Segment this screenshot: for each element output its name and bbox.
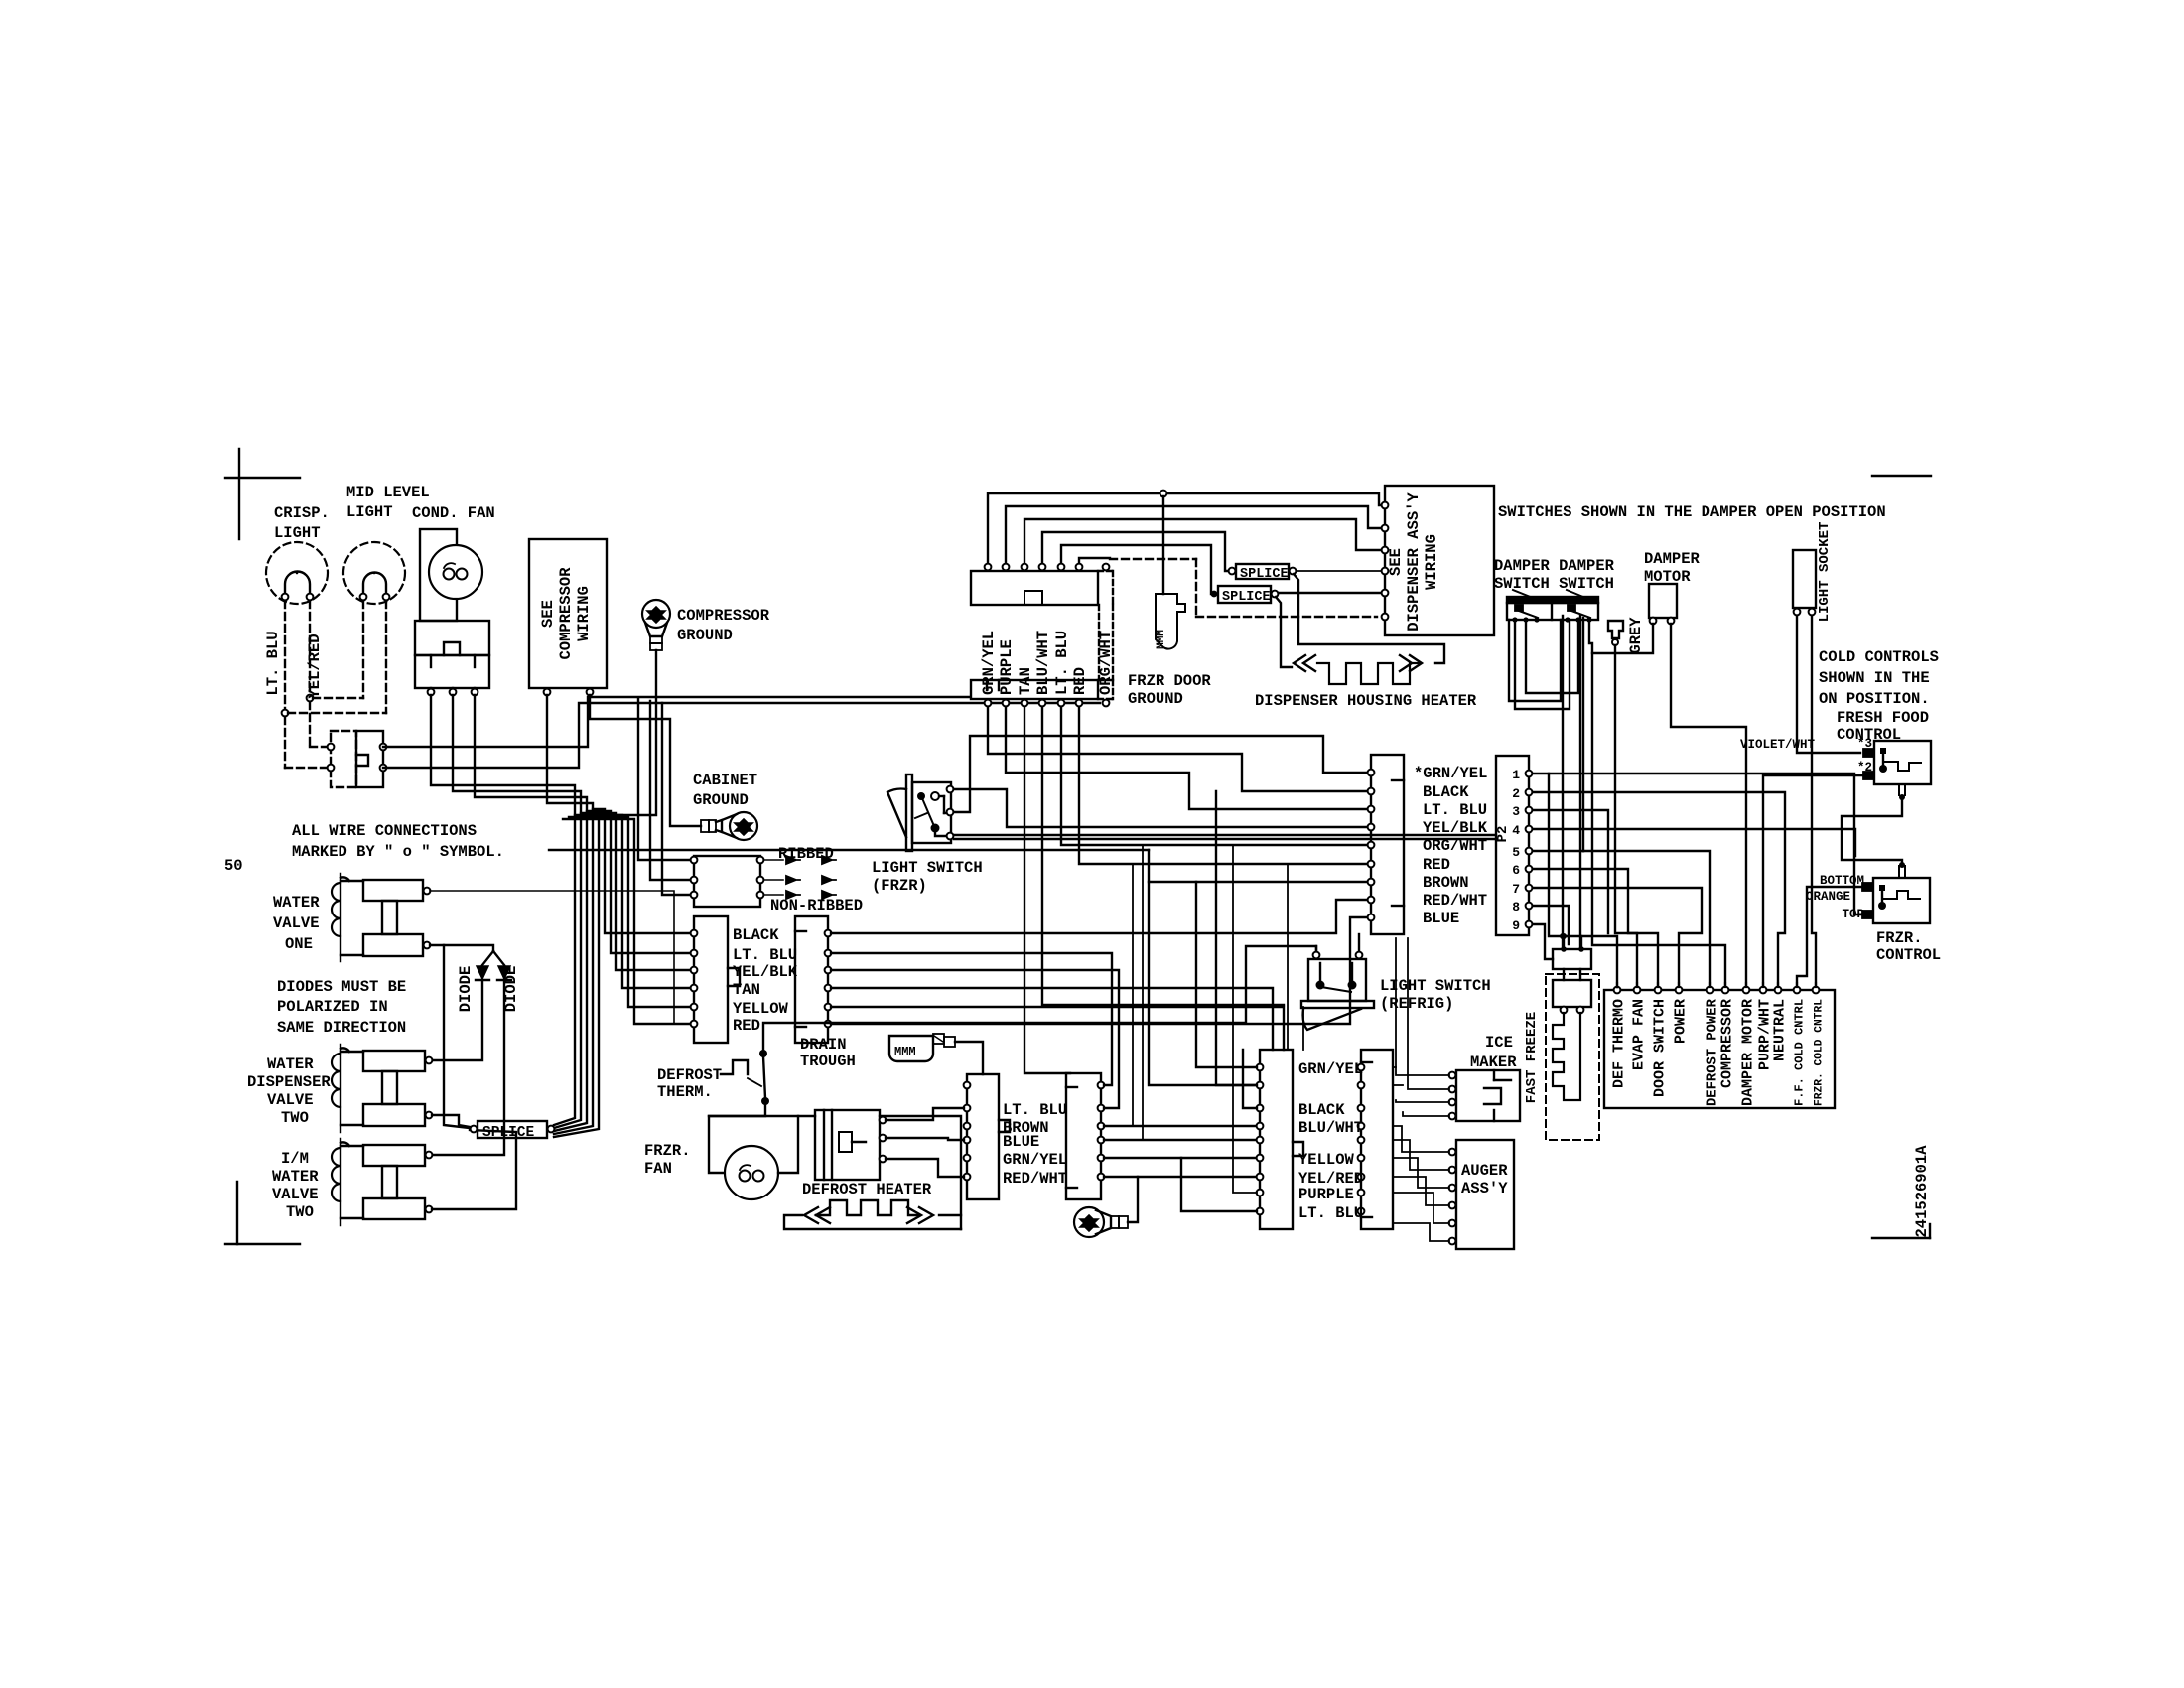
svg-text:241526901A: 241526901A bbox=[1913, 1145, 1931, 1238]
lamp socket LIGHT SOCKET bbox=[1793, 522, 1833, 623]
svg-text:BLU/WHT: BLU/WHT bbox=[1298, 1119, 1363, 1137]
wire P2 pin1 bbox=[1533, 774, 1563, 936]
wire light socket right down bbox=[1812, 616, 1816, 987]
ground FRZR DOOR GROUND bbox=[1128, 491, 1211, 708]
svg-text:COMPRESSOR: COMPRESSOR bbox=[677, 607, 770, 625]
svg-text:WATER: WATER bbox=[273, 894, 320, 912]
switch LIGHT SWITCH (FRZR) bbox=[872, 774, 983, 895]
svg-text:LIGHT: LIGHT bbox=[346, 503, 393, 521]
wire P2 pin3 bbox=[1533, 810, 1608, 933]
wire extra vertical drop b bbox=[1104, 845, 1143, 1140]
svg-text:RED/WHT: RED/WHT bbox=[1423, 892, 1487, 910]
svg-text:WIRING: WIRING bbox=[575, 586, 593, 641]
svg-text:NON-RIBBED: NON-RIBBED bbox=[770, 897, 863, 914]
svg-text:LIGHT SWITCH: LIGHT SWITCH bbox=[872, 859, 983, 877]
svg-text:YELLOW: YELLOW bbox=[1298, 1151, 1355, 1169]
svg-text:DEF THERMO: DEF THERMO bbox=[1611, 999, 1628, 1088]
svg-text:LT. BLU: LT. BLU bbox=[1423, 801, 1487, 819]
svg-text:MMM: MMM bbox=[1156, 630, 1167, 649]
svg-text:SAME DIRECTION: SAME DIRECTION bbox=[277, 1019, 406, 1037]
svg-text:RED/WHT: RED/WHT bbox=[1003, 1170, 1067, 1188]
svg-text:LIGHT SOCKET: LIGHT SOCKET bbox=[1817, 522, 1833, 623]
svg-text:DEFROST: DEFROST bbox=[657, 1066, 722, 1084]
svg-text:WATER: WATER bbox=[272, 1168, 319, 1186]
svg-text:2: 2 bbox=[1512, 786, 1520, 801]
wire top connector column 3 down bbox=[1024, 707, 1070, 1073]
wire refrig switch left terminal up bbox=[1315, 946, 1317, 951]
wire refrig switch right terminal to 9-pin box bbox=[1358, 934, 1360, 951]
svg-text:DISPENSER HOUSING HEATER: DISPENSER HOUSING HEATER bbox=[1255, 692, 1477, 710]
wire cond fan terminal 1 to splice bundle bbox=[431, 695, 575, 1125]
wire fast freeze right pin up bbox=[1580, 936, 1582, 949]
wire freezer control bottom terminal bbox=[1797, 887, 1862, 987]
svg-text:GROUND: GROUND bbox=[1128, 690, 1183, 708]
terminal block main bbox=[1604, 987, 1835, 1108]
wire heater element left loop bbox=[784, 1215, 961, 1229]
svg-text:COMPRESSOR: COMPRESSOR bbox=[1719, 999, 1736, 1088]
svg-text:GRN/YEL: GRN/YEL bbox=[1298, 1060, 1363, 1078]
wire 6-pin row2 to 5-pin right half bbox=[831, 953, 1112, 1085]
wire frzr switch middle terminal to grn/yel bbox=[954, 736, 1367, 812]
svg-text:SEE: SEE bbox=[1387, 548, 1405, 576]
svg-text:YELLOW: YELLOW bbox=[733, 1000, 789, 1018]
connector 6-pin right half bbox=[795, 916, 828, 1043]
wire splice upper feed from top connector bbox=[1042, 532, 1229, 571]
resistor FAST FREEZE bbox=[1524, 946, 1599, 1140]
ground lug CABINET GROUND bbox=[693, 772, 757, 840]
wire P2 pin9 bbox=[1533, 924, 1553, 959]
box AUGER ASS'Y bbox=[1449, 1140, 1514, 1249]
svg-text:LT. BLU: LT. BLU bbox=[1298, 1204, 1363, 1222]
wire water dispenser valve lower to splice bbox=[432, 1115, 470, 1127]
connector P2 bbox=[1495, 756, 1532, 935]
svg-text:YEL/BLK: YEL/BLK bbox=[733, 963, 798, 981]
svg-text:GROUND: GROUND bbox=[693, 791, 749, 809]
terminals 9-pin connector bbox=[1368, 770, 1375, 776]
wire def thermo feed bbox=[1563, 936, 1617, 987]
wire red/wht feed from 6-pin bbox=[831, 900, 1367, 933]
splice SPLICE upper bbox=[1229, 564, 1297, 582]
wire cond fan terminal 2 to splice bundle bbox=[453, 695, 581, 1128]
svg-text:BLACK: BLACK bbox=[1298, 1101, 1345, 1119]
wire LT. BLU dashed from crisp light bbox=[284, 601, 286, 709]
svg-text:8: 8 bbox=[1512, 900, 1520, 914]
svg-text:F.F. COLD CNTRL: F.F. COLD CNTRL bbox=[1793, 999, 1807, 1106]
wire drain trough to connector bbox=[955, 1042, 983, 1074]
svg-text:9: 9 bbox=[1512, 918, 1520, 933]
terminals 7-label connector pair bbox=[1257, 1064, 1264, 1071]
wire long run y856 bbox=[549, 849, 1149, 851]
wire blue feed from 6-pin bbox=[831, 917, 1367, 1024]
svg-text:MMM: MMM bbox=[894, 1045, 916, 1058]
registration mark bottom-right bbox=[1872, 1237, 1930, 1239]
svg-text:LIGHT: LIGHT bbox=[274, 524, 321, 542]
svg-text:3: 3 bbox=[1512, 804, 1520, 819]
svg-text:YEL/RED: YEL/RED bbox=[306, 633, 324, 698]
connector 9-pin GRN/YEL..BLUE bbox=[1371, 755, 1404, 934]
wire compressor box terminal 2 to cabinet ground bbox=[590, 695, 701, 826]
svg-text:THERM.: THERM. bbox=[657, 1083, 713, 1101]
svg-text:EVAP FAN: EVAP FAN bbox=[1631, 999, 1648, 1070]
wire extra vertical drop c bbox=[1233, 845, 1257, 1193]
switch DAMPER SWITCH pair bbox=[1494, 557, 1615, 623]
wire grey plug down bbox=[1615, 645, 1658, 987]
motor DAMPER MOTOR bbox=[1644, 550, 1701, 624]
svg-text:BLACK: BLACK bbox=[1423, 783, 1469, 801]
svg-text:MAKER: MAKER bbox=[1470, 1054, 1517, 1071]
heater DRAIN TROUGH bbox=[800, 1034, 955, 1070]
svg-text:DISPENSER ASS'Y: DISPENSER ASS'Y bbox=[1405, 492, 1423, 632]
svg-text:GROUND: GROUND bbox=[677, 627, 733, 644]
svg-text:FRZR DOOR: FRZR DOOR bbox=[1128, 672, 1211, 690]
svg-text:5: 5 bbox=[1512, 845, 1520, 860]
svg-text:BLACK: BLACK bbox=[733, 926, 779, 944]
svg-text:CABINET: CABINET bbox=[693, 772, 757, 789]
wire org/wht feed bbox=[1061, 707, 1367, 845]
wire P2 pin4 bbox=[1533, 829, 1855, 856]
connector top lower half bbox=[971, 680, 1113, 699]
wire ice maker feeds bbox=[1396, 938, 1449, 1075]
connector 6-pin left half bbox=[694, 916, 740, 1043]
node junction YEL/RED bbox=[307, 695, 314, 702]
wire org/wht feed to dashed path bbox=[1079, 558, 1110, 563]
svg-text:LT. BLU: LT. BLU bbox=[264, 631, 282, 695]
wire top connector column 4 down to long run bbox=[1042, 707, 1284, 1005]
lamp CRISP. LIGHT bbox=[266, 504, 330, 604]
wire YEL/RED dashed from crisp light bbox=[309, 601, 311, 694]
svg-text:ORANGE: ORANGE bbox=[1806, 890, 1850, 904]
wire cond fan terminal 3 to splice bundle bbox=[475, 695, 587, 1131]
ground lug COMPRESSOR GROUND bbox=[642, 600, 770, 650]
motor COND. FAN bbox=[412, 504, 495, 695]
wire diode D1 to water dispenser valve bbox=[432, 980, 482, 1060]
solenoid I/M WATER VALVE TWO bbox=[272, 1139, 432, 1225]
switch LIGHT SWITCH (REFRIG) bbox=[1301, 952, 1491, 1030]
wire brown feed bbox=[1149, 850, 1367, 882]
svg-text:SPLICE: SPLICE bbox=[1240, 567, 1289, 582]
svg-text:DRAIN: DRAIN bbox=[800, 1036, 847, 1054]
box ICE MAKER bbox=[1449, 1034, 1520, 1121]
connector 7-label right half bbox=[1361, 1050, 1393, 1229]
wire crisper switch lower to org/wht dashed column bbox=[383, 703, 1100, 768]
svg-text:ORG/WHT: ORG/WHT bbox=[1423, 837, 1487, 855]
svg-text:FRZR. COLD CNTRL: FRZR. COLD CNTRL bbox=[1814, 999, 1826, 1106]
wire red feed bbox=[1079, 707, 1367, 864]
svg-text:4: 4 bbox=[1512, 823, 1520, 838]
box SEE DISPENSER ASS'Y WIRING bbox=[1382, 486, 1494, 635]
wire diode D2 to I/M water valve bbox=[432, 980, 504, 1155]
splice SPLICE lower bbox=[1211, 586, 1279, 605]
wire dispenser feed 2 bbox=[1006, 506, 1381, 563]
svg-text:*GRN/YEL: *GRN/YEL bbox=[1414, 765, 1487, 782]
wire dashed org/wht to dispenser terminal 6 bbox=[1110, 558, 1196, 560]
terminals 6-pin connector bbox=[691, 930, 698, 937]
svg-text:TAN: TAN bbox=[733, 981, 760, 999]
diode D1 bbox=[457, 951, 493, 1012]
svg-text:DAMPER DAMPER: DAMPER DAMPER bbox=[1494, 557, 1615, 575]
wire I/M water valve lower to splice bbox=[432, 1130, 516, 1209]
wire lower splice to dispenser terminal 5 bbox=[1279, 592, 1381, 594]
svg-text:POWER: POWER bbox=[1673, 999, 1690, 1044]
wire vertical stubs above terminal block bbox=[1616, 983, 1618, 987]
wire damper motor left terminal bbox=[1592, 624, 1653, 653]
svg-text:POLARIZED IN: POLARIZED IN bbox=[277, 998, 388, 1016]
svg-text:ALL WIRE CONNECTIONS: ALL WIRE CONNECTIONS bbox=[292, 822, 477, 840]
wire dispenser feed 3 bbox=[1024, 519, 1381, 563]
svg-text:COMPRESSOR: COMPRESSOR bbox=[557, 567, 575, 660]
connector 5-pin left half bbox=[967, 1074, 1010, 1199]
wire dashed from mid level light left terminal bbox=[362, 601, 364, 698]
wire evaporator ground bbox=[1128, 1177, 1138, 1222]
svg-text:DAMPER MOTOR: DAMPER MOTOR bbox=[1740, 999, 1757, 1106]
svg-text:ASS'Y: ASS'Y bbox=[1461, 1180, 1508, 1197]
wire defrost heater to 5-pin connector row3 bbox=[886, 1159, 964, 1177]
ground lug evaporator bbox=[1074, 1207, 1128, 1237]
wire feeds C4 left rows bbox=[1196, 882, 1257, 1067]
wire dispenser feed 1 bbox=[988, 493, 1381, 563]
svg-text:GRN/YEL: GRN/YEL bbox=[980, 631, 998, 695]
wire freezer fan right side bbox=[778, 1116, 798, 1173]
svg-text:SPLICE: SPLICE bbox=[1222, 590, 1271, 605]
registration mark bottom-left bbox=[236, 1182, 238, 1244]
svg-text:DOOR SWITCH: DOOR SWITCH bbox=[1652, 999, 1669, 1097]
lamp MID LEVEL LIGHT bbox=[343, 484, 430, 604]
svg-text:DIODES MUST BE: DIODES MUST BE bbox=[277, 978, 406, 996]
svg-text:DAMPER: DAMPER bbox=[1644, 550, 1701, 568]
wire P2 pin5 bbox=[1533, 850, 1583, 852]
solenoid WATER DISPENSER VALVE TWO bbox=[247, 1045, 432, 1132]
svg-text:TROUGH: TROUGH bbox=[800, 1053, 856, 1070]
wire lt blu feed bbox=[1006, 707, 1367, 809]
svg-text:50: 50 bbox=[224, 857, 243, 875]
wire damper switch nested loops bbox=[1509, 620, 1561, 701]
connector 5-pin right half bbox=[1066, 1073, 1101, 1199]
wire heater element right end up bbox=[939, 1214, 961, 1216]
wire black feed bbox=[988, 707, 1367, 791]
svg-text:(REFRIG): (REFRIG) bbox=[1380, 995, 1453, 1013]
connector 7-label left half bbox=[1260, 1050, 1303, 1229]
svg-text:SPLICE: SPLICE bbox=[482, 1125, 535, 1141]
svg-text:TWO: TWO bbox=[286, 1203, 314, 1221]
svg-text:VALVE: VALVE bbox=[273, 914, 320, 932]
svg-text:FRESH FOOD: FRESH FOOD bbox=[1837, 709, 1929, 727]
svg-text:TWO: TWO bbox=[281, 1109, 309, 1127]
terminals top connector lower bbox=[985, 700, 992, 707]
wire extra vertical drop d bbox=[1302, 1007, 1304, 1050]
wire splice lower feed from top connector bbox=[1061, 545, 1214, 594]
svg-text:SHOWN IN THE: SHOWN IN THE bbox=[1819, 669, 1930, 687]
svg-text:7: 7 bbox=[1512, 882, 1520, 897]
svg-text:DISPENSER: DISPENSER bbox=[247, 1073, 331, 1091]
svg-text:ICE: ICE bbox=[1485, 1034, 1513, 1052]
svg-text:COND. FAN: COND. FAN bbox=[412, 504, 495, 522]
svg-text:WIRING: WIRING bbox=[1423, 534, 1440, 590]
svg-text:GRN/YEL: GRN/YEL bbox=[1003, 1151, 1067, 1169]
svg-text:PURPLE: PURPLE bbox=[1298, 1186, 1354, 1203]
wire compressor ground down to splice bundle bbox=[554, 650, 656, 1137]
dashed org/wht column bbox=[1098, 605, 1100, 680]
wire 6-pin row4 down bbox=[831, 988, 1273, 1050]
wire P2 pin1 long branch to freezer control top bbox=[1549, 774, 1864, 914]
svg-text:PURPLE: PURPLE bbox=[998, 639, 1016, 695]
box SEE COMPRESSOR WIRING bbox=[529, 539, 607, 695]
svg-text:FAST FREEZE: FAST FREEZE bbox=[1524, 1012, 1540, 1103]
wire extra vertical drop e bbox=[1287, 864, 1289, 1050]
wire P2 pin8 bbox=[1533, 906, 1569, 944]
wire freezer fan enclosure bbox=[709, 1115, 815, 1117]
wire defrost therm lower contact to freezer fan bbox=[709, 1105, 765, 1173]
wire P2 pin7 bbox=[1533, 888, 1702, 987]
wire fresh food control output to freezer control bbox=[1842, 800, 1902, 863]
thermostat FRESH FOOD CONTROL bbox=[1837, 709, 1931, 800]
svg-text:RED: RED bbox=[733, 1017, 760, 1035]
terminals 5-pin connector pair bbox=[964, 1082, 971, 1089]
svg-text:CRISP.: CRISP. bbox=[274, 504, 330, 522]
wire defrost heater to 5-pin connector row1 bbox=[886, 1108, 964, 1120]
node junction LT. BLU bbox=[282, 710, 289, 717]
wire fresh food control *2 to terminal block bbox=[1763, 775, 1863, 987]
wire 5-pin rows straight to 9-pin left connector bbox=[1104, 1125, 1257, 1127]
svg-text:FRZR.: FRZR. bbox=[1876, 929, 1923, 947]
svg-text:AUGER: AUGER bbox=[1461, 1162, 1508, 1180]
wire 6-pin row3 to 5-pin right half bbox=[831, 970, 1119, 1108]
svg-text:BLU/WHT: BLU/WHT bbox=[1034, 631, 1052, 695]
svg-text:WATER: WATER bbox=[267, 1055, 314, 1073]
wire feeds to ribbed connector bbox=[638, 699, 691, 860]
wire fast freeze left pin up bbox=[1563, 936, 1565, 949]
wire defrost power feed bbox=[1583, 851, 1710, 987]
svg-text:SWITCHES SHOWN IN THE DAMPER O: SWITCHES SHOWN IN THE DAMPER OPEN POSITI… bbox=[1498, 503, 1886, 521]
svg-text:LT. BLU: LT. BLU bbox=[733, 946, 797, 964]
wire P2 pin2 bbox=[1533, 792, 1785, 987]
motor FRZR. FAN bbox=[644, 1142, 778, 1199]
wire damper switch drops bbox=[1562, 616, 1564, 949]
svg-text:COLD CONTROLS: COLD CONTROLS bbox=[1819, 648, 1939, 666]
svg-text:6: 6 bbox=[1512, 863, 1520, 878]
wire water valve one lower to splice bbox=[444, 945, 470, 1128]
svg-text:BROWN: BROWN bbox=[1423, 874, 1469, 892]
wire crisper switch to freezer light switch run bbox=[383, 697, 970, 747]
svg-text:ON POSITION.: ON POSITION. bbox=[1819, 690, 1930, 708]
svg-text:MARKED BY " o " SYMBOL.: MARKED BY " o " SYMBOL. bbox=[292, 843, 504, 861]
thermostat DEFROST THERM. bbox=[657, 1050, 769, 1105]
switch crisper lights bbox=[328, 731, 387, 787]
svg-text:VALVE: VALVE bbox=[272, 1186, 319, 1203]
svg-text:FAN: FAN bbox=[644, 1160, 672, 1178]
svg-text:(FRZR): (FRZR) bbox=[872, 877, 927, 895]
wire P2 pin6 bbox=[1533, 869, 1637, 987]
svg-text:MID LEVEL: MID LEVEL bbox=[346, 484, 430, 501]
registration mark top-left bbox=[238, 449, 240, 539]
svg-text:DEFROST HEATER: DEFROST HEATER bbox=[802, 1181, 932, 1198]
wire lower splice down to heater left end bbox=[1276, 597, 1292, 667]
wire defrost heater to 5-pin connector row2 bbox=[886, 1138, 964, 1140]
diode D2 bbox=[493, 951, 520, 1012]
splice SPLICE left bbox=[471, 1121, 555, 1141]
connector RIBBED / NON-RIBBED bbox=[691, 845, 863, 914]
svg-text:NEUTRAL: NEUTRAL bbox=[1772, 999, 1789, 1061]
wire compressor box terminal to splice bundle bbox=[547, 695, 593, 1134]
connector GREY plug bbox=[1608, 617, 1645, 654]
svg-text:BLUE: BLUE bbox=[1423, 910, 1459, 927]
svg-text:LT. BLU: LT. BLU bbox=[1053, 631, 1071, 695]
wire damper motor right terminal bbox=[1671, 624, 1746, 987]
svg-text:1: 1 bbox=[1512, 768, 1520, 782]
wire dashed from mid level light right terminal bbox=[385, 601, 387, 713]
wire frzr switch bottom terminal double run to P2 bbox=[954, 834, 1496, 836]
wire auger feeds bbox=[1393, 1126, 1449, 1152]
terminals top connector upper bbox=[985, 564, 992, 571]
wire upper splice to dispenser terminal 4 bbox=[1297, 570, 1381, 572]
wire 6-pin row5 down bbox=[831, 1007, 1284, 1050]
connector top upper half bbox=[971, 571, 1113, 605]
svg-text:CONTROL: CONTROL bbox=[1876, 946, 1941, 964]
wire feeds to 6-pin connector from above bbox=[593, 809, 691, 933]
svg-text:BLUE: BLUE bbox=[1003, 1133, 1039, 1151]
wire frzr switch top terminal to yel/blk bbox=[954, 789, 1367, 827]
wire upper splice down to heater right end bbox=[1294, 574, 1444, 663]
heater DISPENSER HOUSING HEATER bbox=[1255, 655, 1477, 710]
svg-text:FRZR.: FRZR. bbox=[644, 1142, 691, 1160]
svg-text:P2: P2 bbox=[1495, 826, 1511, 843]
heater DEFROST HEATER assembly bbox=[802, 1110, 932, 1198]
svg-text:RED: RED bbox=[1423, 856, 1450, 874]
wire light socket left to violet/wht bbox=[1797, 616, 1860, 753]
svg-text:GREY: GREY bbox=[1627, 617, 1645, 654]
registration mark top-right bbox=[1872, 475, 1931, 477]
wire water valve one lower terminal to diodes bbox=[430, 945, 493, 951]
wire water valve one upper terminal bbox=[430, 891, 691, 1024]
svg-text:SEE: SEE bbox=[539, 600, 557, 628]
wire extra vertical drop a bbox=[1104, 864, 1133, 1126]
svg-text:DIODE: DIODE bbox=[457, 966, 475, 1013]
svg-text:VIOLET/WHT: VIOLET/WHT bbox=[1740, 738, 1816, 752]
svg-text:I/M: I/M bbox=[281, 1150, 309, 1168]
solenoid WATER VALVE ONE bbox=[273, 874, 430, 961]
svg-text:ONE: ONE bbox=[285, 935, 313, 953]
svg-text:YEL/BLK: YEL/BLK bbox=[1423, 819, 1488, 837]
wire defrost therm upper contact long run bbox=[763, 946, 1316, 1050]
heater element squiggle bbox=[804, 1200, 933, 1223]
thermostat FRZR. CONTROL bbox=[1806, 862, 1941, 964]
svg-text:VALVE: VALVE bbox=[267, 1091, 314, 1109]
svg-text:LT. BLU: LT. BLU bbox=[1003, 1101, 1067, 1119]
